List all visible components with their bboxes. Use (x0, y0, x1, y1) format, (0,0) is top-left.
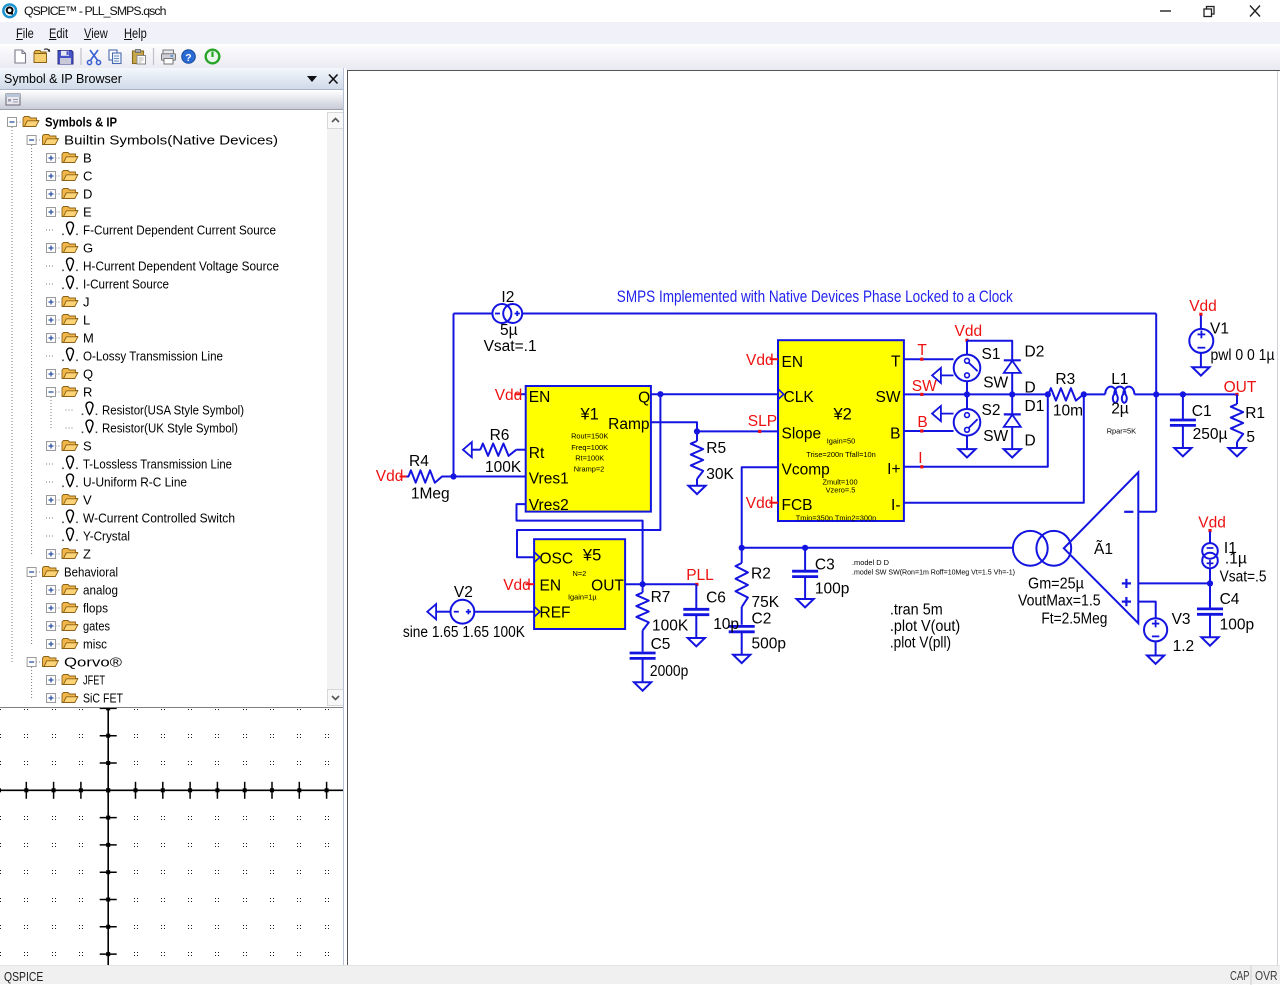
wire R3 to L1 (1084, 393, 1105, 395)
wire top rail down to minus input (1155, 314, 1157, 512)
svg-text:SLP: SLP (748, 413, 777, 430)
svg-text:FCB: FCB (782, 497, 813, 514)
capacitor C2 (729, 625, 755, 628)
svg-text:?: ? (185, 52, 191, 64)
resistor R1 (1236, 394, 1238, 404)
wire Slope net (697, 430, 779, 432)
preview grid dots (0, 706, 329, 956)
tree row Behavioral (27, 565, 118, 580)
wire T net (904, 358, 954, 360)
svg-text:H-Current Dependent Voltage So: H-Current Dependent Voltage Source (83, 259, 279, 274)
tree row W-Current Controlled Switch (46, 510, 235, 525)
tree row SiC FET (47, 691, 124, 706)
svg-text:F-Current Dependent Current So: F-Current Dependent Current Source (83, 223, 276, 238)
svg-text:pwl 0 0 1µ: pwl 0 0 1µ (1211, 347, 1275, 364)
svg-text:Vzero=.5: Vzero=.5 (826, 486, 856, 495)
svg-text:Q: Q (638, 390, 650, 407)
svg-text:EN: EN (529, 389, 551, 406)
svg-text:I+: I+ (887, 461, 900, 478)
title bar (0, 0, 1280, 22)
svg-text:S: S (83, 439, 92, 454)
svg-text:Vsat=.5: Vsat=.5 (1220, 569, 1267, 586)
tree row F-Current Dependent Current Source (46, 222, 276, 237)
svg-text:500p: 500p (752, 635, 786, 652)
svg-text:10p: 10p (713, 616, 739, 633)
tree row JFET (47, 673, 106, 688)
tree row M (47, 331, 94, 346)
svg-text:analog: analog (83, 583, 118, 598)
svg-text:V1: V1 (1210, 321, 1229, 338)
A1 plus input 2 (1122, 600, 1131, 602)
status bar (0, 965, 1280, 984)
svg-text:misc: misc (83, 637, 107, 652)
svg-text:J: J (83, 295, 90, 310)
svg-text:SW: SW (912, 378, 937, 395)
svg-text:2000p: 2000p (650, 663, 688, 680)
tree row Y-Crystal (46, 528, 130, 543)
svg-text:C6: C6 (706, 590, 726, 607)
svg-text:250µ: 250µ (1193, 426, 1228, 443)
behavioral block Y1 (526, 386, 651, 512)
svg-text:Vres2: Vres2 (529, 497, 569, 514)
junction C1 top (1180, 391, 1186, 397)
capacitor C3 (804, 548, 806, 571)
tree row S (47, 439, 93, 454)
svg-text:Symbols & IP: Symbols & IP (45, 115, 117, 130)
ground below C3 (797, 599, 814, 607)
resistor R3 (1048, 388, 1083, 400)
svg-text:Z: Z (83, 547, 91, 562)
svg-text:T-Lossless Transmission Line: T-Lossless Transmission Line (83, 457, 232, 472)
tree row L (47, 313, 91, 328)
wire Y5 OUT to PLL corner (625, 583, 696, 585)
ground below S2 (958, 449, 975, 457)
behavioral block Y2 (778, 340, 904, 521)
svg-text:Rt: Rt (529, 445, 545, 462)
svg-text:SW: SW (983, 428, 1008, 445)
ground below R5 (688, 486, 705, 494)
svg-text:gates: gates (83, 619, 110, 634)
svg-text:C2: C2 (752, 611, 772, 628)
ground below R1 (1228, 448, 1245, 456)
tree row J (47, 295, 90, 310)
svg-text:D: D (1025, 433, 1036, 450)
tree row G (47, 241, 94, 256)
svg-text:C4: C4 (1220, 591, 1240, 608)
tree row flops (47, 601, 109, 616)
ground below C4 (1201, 637, 1218, 645)
svg-text:Behavioral: Behavioral (64, 565, 118, 580)
svg-text:I: I (918, 450, 922, 467)
tree row O-Lossy Transmission Line (46, 348, 223, 363)
svg-text:R5: R5 (706, 440, 726, 457)
svg-text:Vcomp: Vcomp (782, 461, 830, 478)
svg-text:.plot V(pll): .plot V(pll) (890, 635, 951, 652)
svg-text:Ft=2.5Meg: Ft=2.5Meg (1041, 610, 1107, 627)
svg-text:30K: 30K (706, 466, 734, 483)
svg-text:Qorvo®: Qorvo® (64, 655, 123, 670)
svg-text:5: 5 (1246, 429, 1255, 446)
schematic canvas (348, 71, 1280, 965)
ground below C2 (733, 655, 750, 663)
tree row misc (47, 637, 108, 652)
junction C3 top (802, 545, 808, 551)
tree row gates (47, 619, 111, 634)
tree row Symbols and IP (8, 115, 118, 130)
tree row Z (47, 547, 92, 562)
wire Q feedback down-left to OSC (517, 394, 660, 557)
svg-text:Resistor(UK Style Symbol): Resistor(UK Style Symbol) (102, 421, 238, 436)
svg-text:L: L (83, 313, 90, 328)
junction I1/C4 (1207, 580, 1213, 586)
svg-text:Y-Crystal: Y-Crystal (83, 529, 130, 544)
resistor R6 with dangling arrow (463, 442, 472, 457)
svg-text:¥5: ¥5 (582, 547, 601, 565)
svg-text:Slope: Slope (782, 426, 822, 443)
svg-text:Gm=25µ: Gm=25µ (1028, 576, 1084, 593)
current source I2 (492, 304, 511, 323)
svg-text:.model D D: .model D D (852, 558, 889, 567)
wire Vcomp to compensation node (742, 467, 778, 548)
tree row Builtin Symbols(Native Devices) (27, 133, 278, 148)
wire S1 bottom to SW rail (966, 381, 968, 394)
A1 plus input 1 (1122, 582, 1131, 584)
ground below V1 (1192, 367, 1209, 375)
tree row B (47, 151, 92, 166)
switch S2 (966, 394, 968, 409)
ground below V3 (1147, 656, 1164, 664)
wire B net (904, 430, 954, 432)
tree row Q (47, 367, 94, 382)
wire V2 to REF (474, 611, 534, 613)
svg-text:D: D (83, 187, 92, 202)
svg-text:flops: flops (83, 601, 108, 616)
wire L1 to OUT (1134, 393, 1237, 395)
wire Vdd to S1 and D2 top (966, 341, 968, 355)
svg-text:Igain=50: Igain=50 (827, 437, 856, 446)
A1 minus input (1124, 511, 1133, 513)
preview axis vertical (107, 708, 109, 965)
junction R3 right (1081, 391, 1087, 397)
tree scrollbar (327, 112, 344, 706)
svg-text:M: M (83, 331, 94, 346)
left panel (0, 68, 346, 966)
svg-text:OUT: OUT (1224, 379, 1257, 396)
diode D1 (1011, 394, 1013, 414)
svg-text:OVR: OVR (1255, 969, 1278, 983)
wire Vres2 loop to Y5 OUT node (517, 504, 643, 584)
wire Ramp to Slope corner (651, 422, 697, 431)
wire plus input 2 to V3 (1138, 602, 1155, 619)
svg-text:Freq=100K: Freq=100K (571, 443, 608, 452)
svg-text:Vdd: Vdd (1198, 515, 1226, 532)
tree row R (47, 385, 93, 400)
capacitor C1 (1182, 394, 1184, 419)
tree row E (47, 205, 93, 220)
resistor R2 (741, 548, 743, 563)
svg-text:10m: 10m (1053, 403, 1083, 420)
svg-text:R3: R3 (1055, 371, 1075, 388)
wire minus input stub (1138, 511, 1156, 513)
svg-text:OSC: OSC (540, 550, 574, 567)
svg-text:Vdd: Vdd (746, 495, 774, 512)
S2 dangling control arrow (932, 406, 941, 421)
tree row analog (47, 583, 119, 598)
svg-text:I-Current Source: I-Current Source (83, 277, 169, 292)
junction R3 left (1045, 391, 1051, 397)
preview grid (0, 708, 346, 965)
svg-text:Vdd: Vdd (1189, 298, 1217, 315)
svg-text:1Meg: 1Meg (411, 486, 450, 503)
resistor R4 (407, 476, 410, 478)
svg-text:.plot V(out): .plot V(out) (890, 618, 960, 635)
behavioral block Y5 (534, 539, 625, 629)
svg-text:VoutMax=1.5: VoutMax=1.5 (1018, 593, 1101, 610)
svg-text:R6: R6 (490, 427, 510, 444)
svg-text:100p: 100p (815, 581, 849, 598)
svg-text:W-Current Controlled Switch: W-Current Controlled Switch (83, 511, 235, 526)
voltage source V3 (1144, 618, 1167, 641)
svg-text:I2: I2 (501, 289, 514, 306)
ground below C1 (1174, 448, 1191, 456)
svg-text:O-Lossy Transmission Line: O-Lossy Transmission Line (83, 349, 223, 364)
svg-text:R7: R7 (651, 589, 671, 606)
svg-text:SW: SW (983, 375, 1008, 392)
svg-text:100K: 100K (652, 618, 689, 635)
svg-text:.model SW SW(Ron=1m Roff=10Meg: .model SW SW(Ron=1m Roff=10Meg Vt=1.5 Vh… (852, 568, 1015, 577)
inductor L1 (1105, 387, 1134, 403)
wire plus input 1 to C4 node (1138, 582, 1210, 584)
resistor R7 (642, 584, 644, 592)
tree row D (47, 187, 93, 202)
tree row H-Current Dependent Voltage Source (46, 258, 279, 273)
capacitor C6 (695, 584, 697, 609)
wire top rail right segment (522, 313, 1156, 315)
svg-text:C1: C1 (1192, 403, 1212, 420)
tree row V (47, 493, 93, 508)
svg-text:S2: S2 (982, 402, 1001, 419)
svg-text:T: T (891, 354, 901, 371)
tree row C (47, 169, 93, 184)
svg-text:R4: R4 (409, 453, 429, 470)
wire R4 to Vres1 (442, 476, 527, 478)
tree row T-Lossless Transmission Line (46, 456, 232, 471)
svg-text:D1: D1 (1025, 398, 1045, 415)
svg-text:R: R (83, 385, 92, 400)
ground below C6 (688, 638, 705, 646)
svg-text:Rout=150K: Rout=150K (571, 431, 608, 440)
svg-text:Vdd: Vdd (955, 323, 983, 340)
svg-text:D2: D2 (1025, 344, 1045, 361)
svg-text:CAP: CAP (1230, 969, 1250, 983)
preview axis horizontal (0, 789, 344, 791)
svg-text:SiC FET: SiC FET (83, 691, 123, 706)
tree row Resistor(UK Style Symbol) (66, 420, 239, 435)
svg-text:Ramp: Ramp (608, 416, 649, 433)
junction SW/D2 (1009, 391, 1015, 397)
svg-text:E: E (83, 205, 92, 220)
resistor R5 (696, 431, 698, 441)
svg-text:C5: C5 (651, 636, 671, 653)
svg-text:L1: L1 (1111, 371, 1128, 388)
wire top rail left segment (454, 313, 493, 315)
svg-text:C3: C3 (815, 557, 835, 574)
ground below D1 (1004, 449, 1021, 457)
svg-text:sine 1.65 1.65 100K: sine 1.65 1.65 100K (403, 624, 526, 641)
svg-text:Rpar=5K: Rpar=5K (1107, 427, 1136, 436)
wire SW rail (904, 393, 1048, 395)
svg-text:EN: EN (782, 354, 804, 371)
svg-text:EN: EN (540, 577, 562, 594)
svg-text:Vsat=.1: Vsat=.1 (484, 338, 537, 355)
svg-text:Vres1: Vres1 (529, 471, 569, 488)
svg-text:.tran 5m: .tran 5m (890, 602, 943, 619)
switch S1 (954, 355, 981, 382)
svg-text:1.2: 1.2 (1173, 638, 1195, 655)
menu bar (0, 22, 1280, 44)
svg-text:Rt=100K: Rt=100K (575, 453, 604, 462)
svg-text:S1: S1 (982, 346, 1001, 363)
svg-text:Vdd: Vdd (376, 468, 404, 485)
svg-text:G: G (83, 241, 93, 256)
junction OUT/R7/Vres2 (640, 581, 646, 587)
capacitor C4 (1209, 583, 1211, 608)
svg-text:I-: I- (891, 497, 900, 514)
svg-text:Q: Q (83, 367, 93, 382)
svg-text:SMPS Implemented with Native D: SMPS Implemented with Native Devices Pha… (617, 288, 1014, 306)
wire I- sense (904, 394, 1084, 502)
junction output/top-rail (1153, 391, 1159, 397)
svg-text:Resistor(USA Style Symbol): Resistor(USA Style Symbol) (102, 403, 244, 418)
svg-text:C: C (83, 169, 92, 184)
toolbar (0, 44, 1280, 70)
svg-text:D: D (1025, 380, 1036, 397)
diode D2 (1004, 359, 1021, 361)
svg-text:Vdd: Vdd (495, 387, 523, 404)
S1 dangling control arrow (932, 368, 941, 383)
svg-text:U-Uniform R-C Line: U-Uniform R-C Line (83, 475, 187, 490)
svg-text:R2: R2 (751, 566, 771, 583)
voltage source V2 (427, 604, 436, 619)
svg-text:Builtin Symbols(Native Devices: Builtin Symbols(Native Devices) (64, 133, 278, 148)
svg-text:Vdd: Vdd (503, 577, 531, 594)
wire Q to CLK (651, 393, 779, 395)
svg-text:JFET: JFET (83, 673, 105, 688)
svg-text:CLK: CLK (784, 389, 815, 406)
ground below C5 (634, 682, 651, 690)
svg-text:5µ: 5µ (500, 322, 518, 339)
svg-text:Vdd: Vdd (746, 352, 774, 369)
wire I+ sense (904, 394, 1048, 466)
tree row Qorvo® (27, 655, 122, 670)
A1 output circles (1013, 531, 1048, 566)
svg-text:Nramp=2: Nramp=2 (574, 465, 605, 474)
svg-text:¥2: ¥2 (833, 406, 852, 424)
junction R4/left vertical (450, 473, 456, 479)
svg-text:V3: V3 (1172, 611, 1191, 628)
svg-text:B: B (917, 414, 927, 431)
wire compensation rail to Gm output (742, 547, 1013, 549)
tree row I-Current Source (46, 276, 169, 291)
svg-text:Ã1: Ã1 (1094, 541, 1113, 558)
svg-text:100p: 100p (1220, 616, 1254, 633)
svg-text:.1µ: .1µ (1225, 551, 1247, 568)
transconductance amp A1 triangle (1064, 472, 1139, 623)
wire left vertical from top rail to R4 net (453, 314, 455, 477)
svg-text:B: B (890, 425, 900, 442)
svg-text:V: V (83, 493, 92, 508)
tree row U-Uniform R-C Line (46, 474, 187, 489)
capacitor C5 (630, 652, 656, 655)
tree row Resistor(USA Style Symbol) (66, 402, 245, 417)
junction Ramp/R5/Slope (694, 428, 700, 434)
svg-text:Tmin=350n Tmin2=300n: Tmin=350n Tmin2=300n (796, 514, 876, 523)
svg-text:V2: V2 (454, 584, 473, 601)
svg-text:Igain=1µ: Igain=1µ (568, 593, 597, 602)
svg-text:¥1: ¥1 (580, 406, 599, 424)
svg-text:75K: 75K (752, 594, 780, 611)
junction R2 top (739, 545, 745, 551)
svg-text:REF: REF (540, 604, 571, 621)
svg-text:2µ: 2µ (1111, 401, 1129, 418)
svg-text:100K: 100K (485, 459, 522, 476)
svg-text:B: B (83, 151, 92, 166)
svg-text:Trise=200n Tfall=10n: Trise=200n Tfall=10n (806, 450, 875, 459)
svg-text:SW: SW (876, 389, 901, 406)
svg-text:PLL: PLL (686, 567, 714, 584)
tree connector lines (11, 127, 13, 662)
junction SW/S1 (964, 391, 970, 397)
wire S2 bottom (966, 436, 968, 449)
schematic frame border (347, 70, 1280, 71)
svg-text:N=2: N=2 (573, 569, 587, 578)
svg-text:T: T (917, 342, 927, 359)
junction at Q wire (657, 391, 663, 397)
current source I1 (1209, 532, 1211, 544)
svg-text:R1: R1 (1245, 405, 1265, 422)
voltage source V1 (1200, 316, 1202, 330)
